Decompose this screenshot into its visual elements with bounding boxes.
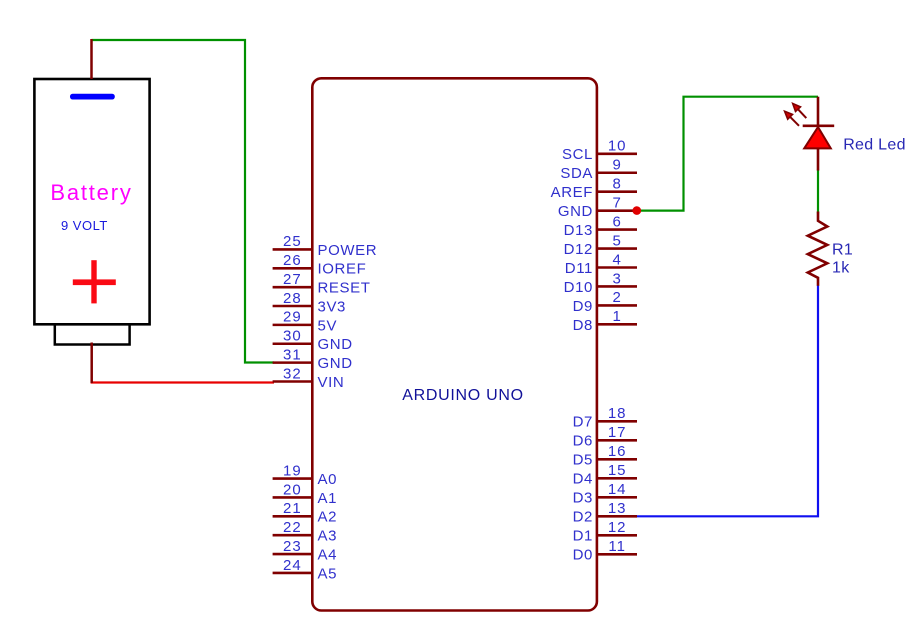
svg-text:26: 26 bbox=[283, 252, 302, 269]
svg-text:25: 25 bbox=[283, 233, 302, 250]
svg-text:7: 7 bbox=[613, 194, 622, 211]
svg-text:D13: D13 bbox=[564, 222, 593, 239]
svg-text:11: 11 bbox=[608, 538, 626, 555]
svg-text:5: 5 bbox=[613, 232, 622, 249]
svg-text:19: 19 bbox=[283, 462, 302, 479]
svg-text:POWER: POWER bbox=[318, 242, 378, 259]
svg-text:GND: GND bbox=[558, 203, 593, 220]
svg-text:29: 29 bbox=[283, 309, 302, 326]
svg-text:9: 9 bbox=[613, 157, 622, 174]
svg-text:1: 1 bbox=[613, 308, 622, 325]
svg-text:31: 31 bbox=[283, 346, 302, 363]
svg-text:SCL: SCL bbox=[562, 146, 593, 163]
svg-text:14: 14 bbox=[608, 481, 627, 498]
svg-text:GND: GND bbox=[318, 336, 353, 353]
svg-text:D3: D3 bbox=[573, 490, 593, 507]
svg-text:A5: A5 bbox=[318, 565, 338, 582]
svg-text:22: 22 bbox=[283, 519, 302, 536]
svg-text:D8: D8 bbox=[573, 317, 593, 334]
svg-text:1k: 1k bbox=[832, 260, 850, 277]
svg-text:VIN: VIN bbox=[318, 374, 345, 391]
svg-text:D2: D2 bbox=[573, 509, 593, 526]
svg-text:D6: D6 bbox=[573, 433, 593, 450]
svg-text:D11: D11 bbox=[565, 260, 593, 277]
svg-text:D4: D4 bbox=[573, 471, 593, 488]
svg-text:A1: A1 bbox=[318, 490, 338, 507]
svg-text:D5: D5 bbox=[573, 452, 593, 469]
svg-text:3V3: 3V3 bbox=[318, 298, 347, 315]
svg-text:A2: A2 bbox=[318, 509, 338, 526]
svg-text:Red Led: Red Led bbox=[843, 137, 906, 154]
svg-text:D9: D9 bbox=[573, 298, 593, 315]
svg-text:D0: D0 bbox=[573, 547, 593, 564]
svg-text:13: 13 bbox=[608, 500, 627, 517]
svg-text:D7: D7 bbox=[573, 414, 593, 431]
svg-text:AREF: AREF bbox=[551, 184, 593, 201]
svg-text:30: 30 bbox=[283, 328, 302, 345]
svg-text:D1: D1 bbox=[573, 528, 593, 545]
svg-text:9 VOLT: 9 VOLT bbox=[61, 218, 108, 233]
svg-text:R1: R1 bbox=[832, 242, 853, 259]
svg-text:17: 17 bbox=[608, 424, 627, 441]
svg-text:23: 23 bbox=[283, 538, 302, 555]
svg-text:28: 28 bbox=[283, 290, 302, 307]
svg-text:A3: A3 bbox=[318, 528, 338, 545]
svg-text:Battery: Battery bbox=[50, 180, 132, 205]
svg-text:5V: 5V bbox=[318, 317, 338, 334]
svg-text:15: 15 bbox=[608, 462, 627, 479]
svg-text:4: 4 bbox=[613, 251, 622, 268]
svg-text:24: 24 bbox=[283, 557, 302, 574]
svg-text:20: 20 bbox=[283, 481, 302, 498]
svg-text:16: 16 bbox=[608, 443, 627, 460]
svg-text:8: 8 bbox=[613, 176, 622, 193]
svg-text:32: 32 bbox=[283, 365, 302, 382]
svg-text:2: 2 bbox=[613, 289, 622, 306]
svg-text:10: 10 bbox=[608, 138, 627, 155]
svg-text:A4: A4 bbox=[318, 546, 338, 563]
svg-text:12: 12 bbox=[608, 519, 627, 536]
svg-text:IOREF: IOREF bbox=[318, 261, 367, 278]
svg-text:21: 21 bbox=[283, 500, 302, 517]
svg-text:RESET: RESET bbox=[318, 280, 371, 297]
svg-text:3: 3 bbox=[613, 270, 622, 287]
svg-text:A0: A0 bbox=[318, 471, 338, 488]
svg-text:ARDUINO UNO: ARDUINO UNO bbox=[402, 387, 523, 404]
svg-text:6: 6 bbox=[613, 213, 622, 230]
svg-text:27: 27 bbox=[283, 271, 302, 288]
svg-text:GND: GND bbox=[318, 355, 353, 372]
svg-text:18: 18 bbox=[608, 405, 627, 422]
svg-text:D12: D12 bbox=[564, 241, 593, 258]
svg-text:D10: D10 bbox=[564, 279, 593, 296]
svg-text:SDA: SDA bbox=[560, 165, 593, 182]
